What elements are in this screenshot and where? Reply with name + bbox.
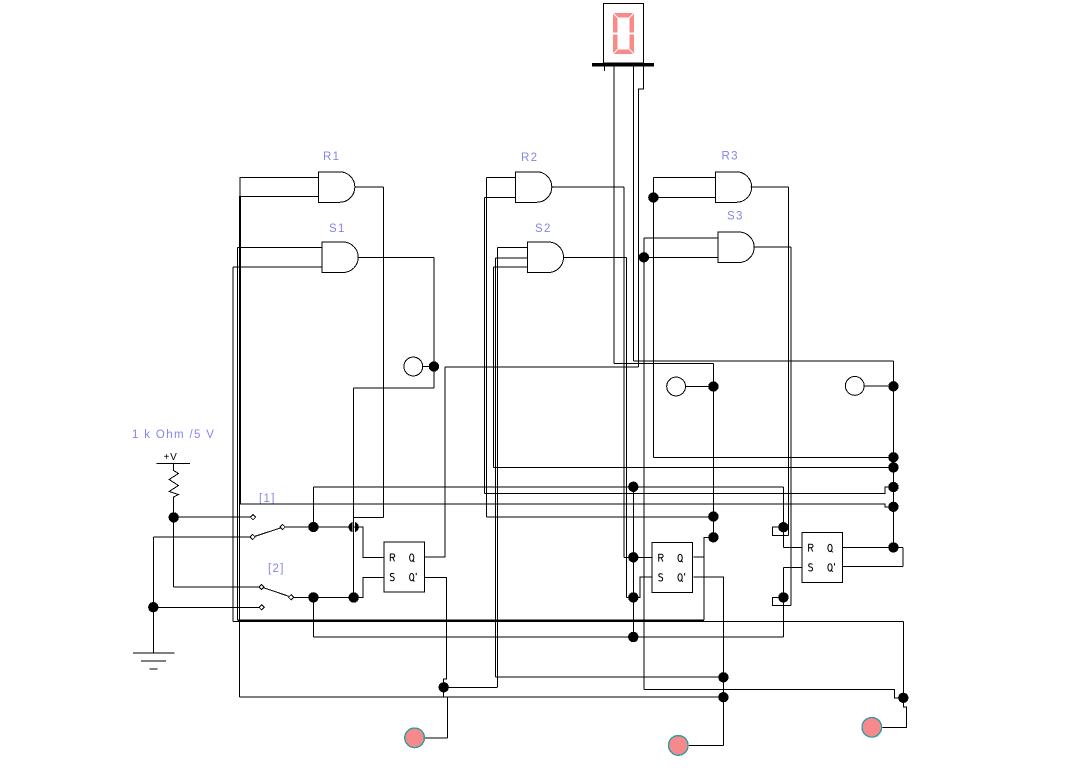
junction dot U3 Q node <box>888 542 898 552</box>
wire U3 R row <box>783 546 802 548</box>
display pin bar <box>592 63 654 66</box>
junction dot r637 x633 <box>628 632 638 642</box>
wire U3 Q-Qbar link <box>902 547 904 566</box>
wire +V node down to switch2 <box>173 517 175 587</box>
LED D2 <box>669 736 689 756</box>
wire U3 Q out <box>843 546 903 548</box>
wire R2 upper input <box>486 176 515 178</box>
wire U3 R jog loop <box>772 527 788 535</box>
wire U1 Q row top <box>445 366 639 368</box>
wire S1 lower riser <box>232 267 234 621</box>
wire R3 output riser <box>787 187 789 535</box>
svg-text:S2: S2 <box>535 223 552 235</box>
svg-text:[2]: [2] <box>268 563 285 575</box>
junction dot R3 inputs <box>648 192 658 202</box>
wire R1 input riser <box>239 177 241 196</box>
switch [2] upper contact <box>259 584 264 589</box>
wire LED1 riser <box>446 697 448 738</box>
junction dot bus487 x633 <box>628 482 638 492</box>
junction dot node B <box>708 381 718 391</box>
and-gate R3 <box>715 172 751 203</box>
wire r621 drop <box>902 621 904 698</box>
wire S3 upper input <box>644 237 718 239</box>
probe circle node C <box>845 377 864 396</box>
+V supply bar <box>157 462 190 464</box>
junction dot U2 Q node <box>708 532 718 542</box>
junction dot node A <box>429 361 439 371</box>
wire node C column <box>892 361 894 547</box>
resistor R1k <box>169 463 178 512</box>
and-gate R2 <box>516 172 552 203</box>
7-segment display body <box>603 4 643 64</box>
wire Qbar node down <box>443 687 445 697</box>
wire r487 drop <box>782 487 784 547</box>
wire S2out to node <box>626 596 640 598</box>
wire S1 upper input <box>237 246 322 248</box>
junction dot U3 R node <box>778 522 788 532</box>
junction dot stage2 s node <box>628 592 638 602</box>
svg-text:R3: R3 <box>722 151 739 163</box>
junction dot r457 end <box>888 452 898 462</box>
wire R1 output riser <box>382 187 384 517</box>
wire S2 output riser <box>625 257 627 597</box>
wire U2 Q down riser <box>703 557 705 620</box>
junction dot U1 Qbar node <box>439 682 449 692</box>
wire bus r504 <box>240 504 893 507</box>
wire bus column stage2 <box>632 487 634 637</box>
wire probe A link <box>423 366 429 368</box>
junction dot r697 end <box>718 692 728 702</box>
svg-text:R1: R1 <box>323 151 340 163</box>
wire R3 output <box>751 186 789 188</box>
wire display pin3 jog <box>639 66 644 367</box>
wire bus r687 <box>444 686 498 688</box>
wire U2 S jog <box>633 577 652 597</box>
junction dot sw1 node <box>308 522 318 532</box>
wire S2 middle riser <box>494 258 496 677</box>
display pin stub <box>604 66 606 70</box>
wire U2 Qbar out <box>694 577 724 745</box>
wire sw1 upper contact row <box>174 516 251 518</box>
junction dot sw2 net b <box>349 592 359 602</box>
wire sw2 upper contact row <box>174 586 259 588</box>
junction dot r677 end <box>718 672 728 682</box>
wire LED1 link <box>424 737 447 739</box>
wire probe C link <box>864 385 888 387</box>
flip-flop U2 <box>652 542 693 592</box>
junction dot sw2 node <box>308 592 318 602</box>
svg-text:+V: +V <box>164 452 178 463</box>
wire R2 upper riser <box>485 177 487 517</box>
wire bus r620 <box>237 620 704 621</box>
svg-text:S1: S1 <box>329 223 346 235</box>
wire sw1 node riser <box>312 487 314 527</box>
probe circle node A <box>404 357 423 376</box>
and-gate S3 <box>718 232 754 263</box>
wire R2 output riser <box>623 187 625 557</box>
wire R1out link row <box>354 516 384 518</box>
flip-flop U1 <box>384 542 425 592</box>
wire bus r689 <box>644 689 903 698</box>
wire bus r637 <box>313 636 783 638</box>
switch [1] arm <box>254 527 283 537</box>
svg-text:R2: R2 <box>521 152 538 164</box>
wire U3 S column <box>782 568 784 638</box>
wire bus r697 <box>240 696 724 698</box>
wire U3 Qbar out <box>843 566 903 568</box>
svg-text:[1]: [1] <box>259 493 276 505</box>
wire bus r457 <box>653 456 893 458</box>
wire U1 Qbar out <box>424 577 446 687</box>
svg-text:S3: S3 <box>727 211 744 223</box>
wire bus r621 <box>233 621 903 622</box>
junction dot node C <box>888 381 898 391</box>
wire S1 output <box>358 256 434 258</box>
wire sw2 lower contact row <box>153 606 259 608</box>
switch [2] lower contact <box>259 605 264 610</box>
wire display pin1 down <box>613 66 615 363</box>
wire S2 upper input <box>497 247 527 249</box>
junction dot U3 S node <box>778 592 788 602</box>
junction dot r504 end <box>888 502 898 512</box>
wire S3 output <box>755 246 792 248</box>
and-gate R1 <box>319 172 355 203</box>
7-segment digit 0 <box>613 13 635 54</box>
switch [2] pivot contact <box>289 595 294 600</box>
wire R3 input riser <box>652 177 654 457</box>
switch [1] upper contact <box>250 515 255 520</box>
flip-flop U3 <box>802 532 843 582</box>
wire R3 lower input <box>653 197 715 199</box>
switch [1] pivot contact <box>280 524 285 529</box>
wire R3 upper input <box>653 176 715 178</box>
wire R2 lower riser <box>483 198 485 494</box>
wire U2 Q out jog <box>694 537 714 557</box>
ground symbol <box>133 653 174 669</box>
and-gate S2 <box>527 242 563 273</box>
wire display pin2 down <box>633 66 635 361</box>
wire S2 lower riser <box>493 267 495 468</box>
wire S3 output riser <box>790 247 792 605</box>
svg-text:1 k Ohm /5 V: 1 k Ohm /5 V <box>132 429 215 441</box>
wire probe B link <box>686 386 709 388</box>
wire sw2 pivot to node <box>294 596 354 598</box>
wire R2 lower input <box>484 197 515 199</box>
junction dot ground node <box>148 602 158 612</box>
wire sw1 lower contact row <box>153 536 250 538</box>
wire pin2 row <box>634 360 894 362</box>
wire R1 input riser lower <box>239 504 241 697</box>
wire S3 lower input <box>644 256 718 258</box>
wire R2 output <box>551 186 624 188</box>
junction dot resistor node <box>169 512 179 522</box>
switch [2] arm <box>262 587 292 597</box>
junction dot U2 R node <box>628 552 638 562</box>
wire S1 out turn row <box>354 387 434 389</box>
switch [1] lower contact <box>250 534 255 539</box>
wire sw2 node drop <box>312 597 314 637</box>
LED D3 <box>862 718 882 738</box>
wire bus r467 <box>494 466 894 468</box>
wire S2 lower input <box>494 266 528 268</box>
wire pin1 row <box>614 362 713 364</box>
wire S2 output <box>563 256 626 258</box>
wire U2 R row <box>624 556 652 558</box>
wire bus r517 <box>486 516 713 518</box>
and-gate S1 <box>322 242 358 273</box>
wire U1 S jog <box>354 578 384 598</box>
wire R1 lower input <box>239 196 319 198</box>
junction half-dot sw1 net <box>349 522 359 533</box>
wire S1 upper riser <box>236 247 238 620</box>
wire U3 S row <box>783 567 802 569</box>
probe circle node B <box>667 377 686 396</box>
wire U1 R jog <box>354 527 384 557</box>
wire ground riser <box>152 537 154 653</box>
wire LED2 link <box>688 744 723 746</box>
wire bus r493 <box>484 487 893 493</box>
wire S2 middle input <box>495 257 527 259</box>
wire S1 output riser <box>433 257 435 388</box>
wire bus r487 <box>313 486 783 488</box>
wire node A column <box>353 388 355 598</box>
LED D1 <box>405 728 425 748</box>
wire U3 S jog loop <box>773 597 792 605</box>
junction dot r467 end <box>888 462 898 472</box>
junction dot r493 end <box>888 482 898 492</box>
junction dot r517 end <box>708 511 718 521</box>
wire bus r677 <box>495 676 723 678</box>
wire R1 input riser thick <box>239 197 241 505</box>
wire node B column <box>712 363 714 537</box>
wire S2 upper riser <box>496 248 498 688</box>
wire S3 input riser <box>643 238 645 689</box>
wire U1 Q out <box>424 367 445 557</box>
junction dot LED3 node <box>898 693 908 703</box>
wire R1 upper input <box>239 176 318 178</box>
wire R1 output <box>355 186 383 188</box>
junction dot S3 inputs <box>639 252 649 262</box>
wire LED3 drop <box>882 698 907 728</box>
wire S1 lower input <box>233 266 322 268</box>
wire sw1 pivot to node <box>285 526 353 528</box>
